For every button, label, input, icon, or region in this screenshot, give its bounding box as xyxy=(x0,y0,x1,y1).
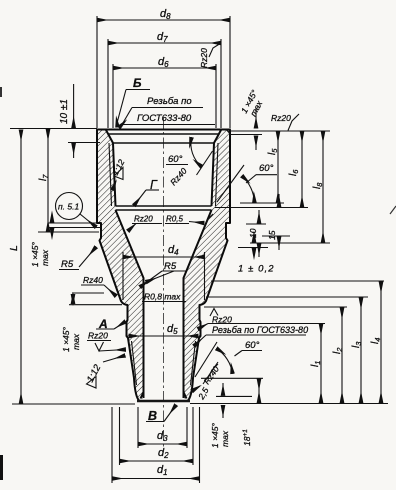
svg-text:R0,5: R0,5 xyxy=(166,215,183,224)
svg-text:R5: R5 xyxy=(164,261,177,272)
svg-text:Резьба по: Резьба по xyxy=(147,96,192,107)
svg-text:60°: 60° xyxy=(245,340,260,351)
svg-text:Rz20: Rz20 xyxy=(88,331,108,341)
svg-text:R5: R5 xyxy=(61,259,74,270)
svg-text:Rz20: Rz20 xyxy=(199,48,209,68)
svg-text:Б: Б xyxy=(133,76,142,90)
svg-text:60°: 60° xyxy=(168,154,183,165)
svg-text:R0,8 max: R0,8 max xyxy=(144,292,181,302)
svg-text:10 ±1: 10 ±1 xyxy=(59,99,70,124)
svg-text:max: max xyxy=(40,249,50,266)
svg-text:10: 10 xyxy=(248,228,258,238)
svg-text:max: max xyxy=(71,333,81,350)
svg-text:max: max xyxy=(220,430,230,447)
svg-text:ГОСТ633-80: ГОСТ633-80 xyxy=(137,113,192,124)
svg-text:L: L xyxy=(8,245,20,251)
svg-text:60°: 60° xyxy=(259,163,274,174)
svg-text:Резьба по ГОСТ633-80: Резьба по ГОСТ633-80 xyxy=(212,325,308,335)
svg-text:Rz20: Rz20 xyxy=(271,113,291,123)
svg-text:15: 15 xyxy=(267,230,277,240)
svg-text:1 ×45°: 1 ×45° xyxy=(210,422,220,448)
svg-text:1 ± 0,2: 1 ± 0,2 xyxy=(238,264,275,275)
svg-text:1 ×45°: 1 ×45° xyxy=(61,326,71,352)
svg-text:п. 5.1: п. 5.1 xyxy=(58,202,79,212)
svg-text:1 ×45°: 1 ×45° xyxy=(30,241,40,267)
svg-text:В: В xyxy=(148,409,157,423)
svg-text:Rz40: Rz40 xyxy=(83,275,103,285)
svg-text:Rz20: Rz20 xyxy=(134,215,153,224)
